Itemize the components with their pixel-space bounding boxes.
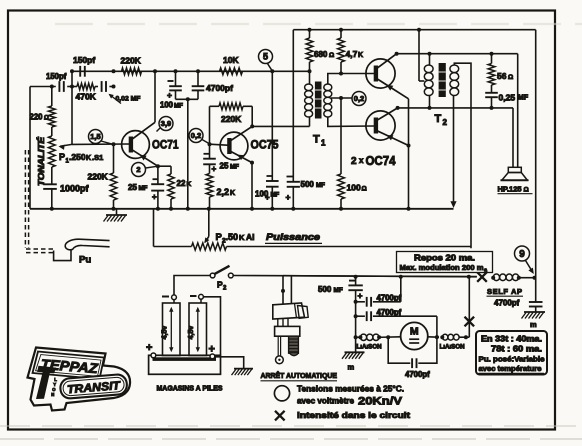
svg-text:4700pf: 4700pf: [377, 308, 402, 317]
resistor 220 ohm: [48, 106, 55, 127]
svg-text:ARRÊT AUTOMATIQUE: ARRÊT AUTOMATIQUE: [261, 371, 338, 380]
transformer T1 secondary: [324, 84, 332, 91]
transformer T2 primary: [429, 54, 431, 65]
arrow to 0.02MF cap: [110, 95, 122, 104]
wire emitter to 22K: [158, 165, 171, 167]
wire motor right: [428, 336, 439, 338]
svg-text:2: 2: [351, 156, 357, 167]
transistor OC75: [220, 132, 248, 160]
resistor 220K top: [122, 68, 142, 75]
svg-text:5: 5: [263, 52, 268, 62]
en33 box: [476, 331, 547, 375]
wire OC71 collector: [154, 71, 156, 122]
wire top bus: [293, 29, 535, 31]
svg-text:K: K: [230, 190, 235, 197]
svg-text:Tensions mesurées à 25°C.: Tensions mesurées à 25°C.: [297, 384, 404, 394]
svg-text:1,5: 1,5: [90, 132, 100, 141]
wire OC71 base: [72, 143, 129, 145]
svg-text:TONALITÉ: TONALITÉ: [37, 136, 46, 186]
svg-text:MF: MF: [174, 103, 183, 110]
polarity 100MF OC75: [267, 175, 273, 177]
wire cap bottoms: [176, 98, 199, 100]
svg-text:m: m: [348, 363, 355, 372]
measure circle 5: [259, 50, 273, 64]
resistor 100 ohm: [340, 98, 342, 174]
wire OC75 base: [210, 144, 228, 145]
shield dashes horizontal: [26, 248, 55, 250]
wire T1 sec bottom to Q2 base: [328, 117, 374, 126]
svg-text:x: x: [359, 156, 364, 165]
wire 220K stub left: [209, 106, 211, 144]
wire P2 left: [153, 210, 155, 247]
svg-text:+: +: [286, 192, 291, 202]
wire power line: [283, 276, 477, 277]
svg-text:LıAıSON: LıAıSON: [357, 344, 383, 351]
svg-text:En 33t : 40ma.: En 33t : 40ma.: [481, 335, 542, 344]
svg-text:Max. modulation 200 m: Max. modulation 200 m: [400, 263, 484, 272]
battery cell 1: [163, 303, 181, 356]
wire liaison1 to motor: [379, 336, 401, 339]
arret bar: [275, 326, 300, 336]
wire junction x72: [71, 71, 73, 144]
wire T2 tap to top bus: [418, 30, 420, 81]
wire input line y86: [30, 86, 56, 88]
svg-text:150pf: 150pf: [46, 72, 67, 81]
resistor 680 ohm: [309, 30, 311, 38]
svg-text:Ω: Ω: [362, 186, 367, 193]
inductor liaison 1: [356, 336, 361, 338]
wire tray to ground: [215, 357, 244, 369]
svg-text:.50: .50: [226, 232, 239, 242]
polarity 25MF OC71: [153, 178, 159, 180]
measure circle 0,2 T1: [352, 92, 366, 106]
svg-text:K: K: [86, 155, 91, 162]
svg-text:1000pf: 1000pf: [60, 184, 90, 194]
wire T1 sec top to Q1 base: [328, 74, 374, 85]
wire T2 sec bottom: [453, 96, 455, 203]
wire left vertical: [29, 87, 31, 209]
wire right rail: [535, 30, 537, 302]
svg-text:0,2: 0,2: [191, 131, 201, 140]
battery minus signs: [162, 296, 169, 298]
measure circle 2: [132, 163, 146, 177]
node Q2 emitter joint: [407, 144, 411, 148]
ground symbol mid: [345, 351, 365, 353]
wire OC75 collector line: [252, 125, 309, 127]
wire switch right: [233, 276, 477, 277]
battery cell 1 arrow: [170, 309, 172, 350]
svg-text:220K: 220K: [88, 172, 109, 182]
svg-text:10K: 10K: [223, 55, 239, 65]
svg-text:.S1: .S1: [92, 153, 103, 162]
capacitor 4700pf right: [529, 301, 543, 303]
ground symbol right: [524, 311, 545, 313]
transformer T1 primary: [309, 71, 311, 84]
polarity 500MF supply: [287, 176, 293, 178]
resistor 220K bias: [113, 144, 115, 173]
svg-text:2: 2: [443, 118, 448, 127]
svg-text:680: 680: [314, 50, 328, 59]
potentiometer P1 Tonalite: [48, 136, 55, 167]
node emitter OC71: [156, 164, 160, 168]
svg-text:100: 100: [255, 190, 269, 199]
svg-text:.250: .250: [69, 152, 86, 162]
battery terminal circles: [172, 295, 177, 300]
node base OC71 dot: [112, 142, 116, 146]
X mark current 2: [477, 272, 487, 282]
svg-text:25: 25: [220, 162, 229, 171]
transformer T1 core: [315, 82, 322, 119]
svg-text:4700pf: 4700pf: [405, 370, 430, 379]
resistor 22K: [168, 174, 174, 199]
svg-text:N: N: [51, 392, 54, 397]
wire arret stub2: [290, 276, 292, 304]
polarity 500MF bottom: [349, 280, 355, 282]
svg-text:LıAıSON: LıAıSON: [440, 344, 466, 351]
svg-text:220K: 220K: [221, 114, 242, 124]
switch P2 contacts: [210, 273, 215, 278]
measure circle 9: [515, 246, 530, 261]
svg-text:Pu: Pu: [79, 255, 91, 266]
wire speaker lead right: [517, 54, 519, 168]
capacitor 100MF OC75: [271, 71, 273, 181]
svg-text:m: m: [530, 320, 537, 329]
svg-text:MF: MF: [316, 182, 325, 189]
svg-text:2,2: 2,2: [217, 187, 230, 197]
battery cell 2: [189, 303, 207, 356]
svg-text:OC74: OC74: [366, 154, 396, 168]
capacitor 4700pf a: [356, 301, 365, 303]
wire top rail y71: [72, 70, 310, 72]
svg-text:P: P: [59, 152, 65, 162]
wiper arrow P1: [60, 144, 72, 146]
speaker HP: [508, 167, 521, 172]
svg-text:500: 500: [318, 285, 332, 294]
pickup bracket: [54, 250, 71, 261]
wire 220ohm hang: [51, 87, 53, 107]
switch lever: [214, 266, 229, 274]
transistor OC71: [122, 131, 150, 159]
wiper P2: [208, 209, 210, 237]
wire ground bus: [30, 208, 454, 210]
svg-text:2: 2: [136, 165, 140, 174]
svg-text:4,5v: 4,5v: [162, 326, 169, 340]
measure circle 0,2 OC75: [189, 129, 203, 143]
resistor 220K feedback: [210, 105, 220, 107]
legend X: [275, 411, 285, 421]
svg-text:Puissance: Puissance: [266, 232, 321, 243]
transistor Q2 OC74: [366, 111, 395, 140]
power line dots: [281, 289, 285, 293]
svg-text:K: K: [358, 52, 363, 59]
wire x188 to bus: [187, 99, 189, 209]
svg-text:4700pf: 4700pf: [206, 83, 233, 93]
battery cell 2 stem: [200, 299, 202, 303]
svg-text:Pu. posé:Variable: Pu. posé:Variable: [479, 355, 545, 364]
svg-text:+: +: [358, 291, 363, 301]
motor bypass box: [388, 337, 410, 363]
svg-text:T: T: [313, 134, 320, 146]
svg-text:+: +: [212, 165, 217, 174]
arret needle: [277, 336, 279, 355]
wire arret stub1: [282, 276, 284, 304]
pickup arm: [65, 239, 109, 250]
svg-text:Intensité dans le circuit: Intensité dans le circuit: [297, 410, 410, 420]
svg-text:M: M: [410, 326, 419, 338]
polarity 25MF OC75: [204, 153, 210, 155]
svg-text:Repos 20 ma.: Repos 20 ma.: [414, 254, 475, 263]
wire pot link: [51, 127, 53, 136]
transistor Q1 OC74: [366, 59, 395, 88]
wire Q1 collector rail: [397, 53, 518, 55]
resistor 2,2K: [206, 174, 213, 198]
svg-text:K: K: [239, 233, 245, 242]
resistor 470K: [77, 83, 95, 89]
measure circle 1,5: [89, 130, 103, 144]
wire speaker lead left: [512, 108, 514, 167]
node dots top-left: [70, 85, 74, 89]
svg-text:MAGASINS A PILES: MAGASINS A PILES: [157, 384, 223, 393]
ground bus dots: [50, 207, 54, 211]
svg-text:+: +: [152, 193, 157, 202]
svg-text:500: 500: [301, 180, 315, 189]
wire switch left: [174, 276, 210, 295]
svg-text:4,7: 4,7: [346, 49, 358, 59]
arret rods: [277, 319, 279, 327]
resistor 10K: [220, 68, 243, 75]
battery cell 2 arrow: [197, 309, 199, 350]
svg-text:56: 56: [497, 71, 507, 81]
wire cell2 link: [203, 297, 220, 356]
wire 4700pf a stub: [400, 277, 402, 302]
svg-text:4700pf: 4700pf: [494, 299, 520, 308]
capacitor 500MF supply: [292, 30, 294, 182]
capacitor 1000pf: [51, 167, 53, 184]
capacitor 0.02MF: [101, 81, 103, 92]
transformer T2 core: [439, 63, 446, 97]
battery tray terminals: [151, 353, 156, 358]
svg-text:OC71: OC71: [152, 138, 179, 152]
svg-text:20Kn/V: 20Kn/V: [358, 396, 403, 408]
svg-text:100: 100: [347, 183, 361, 193]
resistor 56 ohm: [491, 54, 493, 64]
svg-text:HP.125: HP.125: [498, 185, 522, 194]
svg-text:220: 220: [30, 113, 44, 122]
svg-text:MF: MF: [230, 164, 239, 171]
motor M: [401, 322, 428, 349]
ground symbol battery: [234, 368, 253, 370]
svg-text:25: 25: [128, 183, 137, 192]
arret solenoid: [289, 336, 299, 353]
transformer T2 secondary: [450, 65, 459, 73]
svg-text:3,9: 3,9: [161, 119, 171, 128]
node OC75 emitter: [250, 161, 254, 165]
svg-text:avec température: avec température: [479, 364, 542, 373]
potentiometer P2 50K: [192, 243, 227, 250]
svg-text:150pf: 150pf: [73, 55, 95, 65]
svg-text:OC75: OC75: [251, 138, 279, 152]
wire OC75 emitter down: [251, 163, 253, 209]
node OC75 collector: [250, 124, 254, 128]
capacitor 500MF bottom: [355, 277, 357, 286]
wire T2 sec top: [454, 63, 471, 248]
svg-text:Ω: Ω: [508, 74, 513, 81]
capacitor 25MF OC75: [209, 144, 211, 159]
inductor liaison 2: [442, 334, 448, 340]
logo Teppaz Transit: [28, 348, 131, 411]
wire 220K stub right: [251, 106, 253, 126]
svg-text:Ω: Ω: [524, 187, 529, 194]
polarity 100MF: [168, 80, 174, 82]
capacitor 0,25MF: [485, 92, 498, 94]
svg-text:100: 100: [160, 101, 174, 110]
svg-text:MF: MF: [518, 95, 529, 102]
svg-text:Ω: Ω: [329, 52, 334, 59]
capacitor 4700pf b: [356, 315, 365, 317]
svg-text:MF: MF: [334, 287, 343, 294]
wire T1 tap: [331, 97, 352, 99]
wire liaison2 up: [466, 336, 469, 338]
wire Q2 collector rail: [398, 107, 513, 109]
svg-text:2: 2: [223, 286, 227, 292]
svg-text:78t : 60 ma.: 78t : 60 ma.: [491, 345, 542, 354]
X mark current 1: [465, 317, 475, 327]
svg-text:MF: MF: [139, 185, 148, 192]
arrow from 9: [526, 261, 533, 273]
svg-text:T: T: [435, 113, 442, 125]
svg-text:Ω: Ω: [44, 116, 49, 122]
node mid dots: [354, 300, 358, 304]
arret block: [273, 303, 305, 319]
capacitor 150pf input: [58, 81, 60, 92]
capacitor 25MF OC71: [157, 166, 159, 184]
measure circle 3,9: [159, 117, 173, 131]
svg-text:0,2: 0,2: [354, 94, 364, 103]
svg-text:22: 22: [177, 179, 186, 188]
inductor self AP: [493, 274, 499, 281]
repos box: [397, 252, 493, 273]
wire Q1 emitter down: [408, 99, 410, 209]
svg-text:4,5v: 4,5v: [188, 326, 195, 340]
svg-text:220K: 220K: [121, 56, 142, 66]
svg-text:+: +: [209, 344, 215, 356]
capacitor 4700pf coupling: [197, 71, 199, 86]
capacitor 100MF: [175, 71, 177, 86]
svg-text:+: +: [146, 342, 152, 354]
svg-text:470K: 470K: [76, 92, 97, 102]
svg-text:AI: AI: [246, 232, 255, 242]
svg-text:9: 9: [519, 249, 525, 260]
capacitor 150pf top: [79, 66, 81, 77]
svg-text:+: +: [167, 90, 172, 100]
shield dashes vertical: [24, 150, 26, 248]
battery tray plate: [153, 357, 217, 361]
svg-text:1: 1: [321, 139, 326, 148]
ground symbol main: [116, 209, 118, 215]
wire P2 right: [227, 246, 472, 248]
resistor 4,7K: [340, 30, 342, 38]
svg-text:0,25: 0,25: [499, 93, 516, 103]
svg-text:avec voltmètre: avec voltmètre: [297, 396, 354, 406]
svg-text:4700pf: 4700pf: [377, 294, 402, 303]
svg-text:SELF AP: SELF AP: [487, 287, 523, 296]
svg-text:MF: MF: [271, 193, 280, 199]
battery tray: [149, 355, 221, 374]
battery cell 1 stem: [173, 300, 175, 303]
legend circle: [274, 386, 289, 401]
